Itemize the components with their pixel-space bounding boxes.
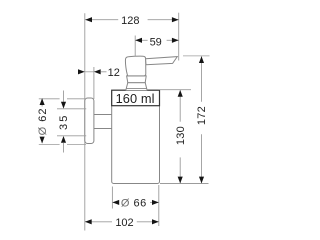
bracket arm top — [94, 114, 112, 116]
dim diameter 62 — [37, 98, 49, 143]
baseline extension bottom — [160, 183, 209, 185]
dim 128 — [85, 15, 179, 27]
dim 59 extension left (pump axis) — [134, 36, 136, 57]
svg-text:12: 12 — [108, 67, 120, 79]
dim 172 extension top — [183, 55, 210, 57]
container body — [112, 90, 160, 183]
svg-text:172: 172 — [196, 106, 208, 125]
dim 130 extension top — [160, 89, 191, 91]
svg-text:130: 130 — [175, 126, 187, 145]
svg-text:160 ml: 160 ml — [116, 91, 155, 106]
svg-text:102: 102 — [115, 217, 133, 229]
dim 35 — [58, 91, 70, 153]
pump head — [125, 56, 145, 76]
svg-text:Ø 62: Ø 62 — [37, 108, 49, 136]
dim diameter 62 extension bottom — [39, 144, 86, 146]
dim 59 — [135, 37, 179, 49]
plate front extension line — [93, 67, 95, 99]
bracket arm bottom — [94, 128, 112, 130]
pump base flange — [126, 83, 147, 91]
wall plate (escutcheon side view) — [85, 98, 94, 144]
dim diameter 66 extension left — [111, 187, 113, 209]
bracket end arc on body — [112, 117, 114, 126]
pump lever / spout — [146, 57, 178, 65]
dim 12 — [78, 67, 120, 79]
dim diameter 62 extension top — [39, 98, 86, 100]
160 ml band box — [112, 90, 160, 106]
dim diameter 66 / 102 extension right — [158, 185, 160, 226]
svg-text:35: 35 — [58, 113, 70, 130]
dim diameter 66 — [112, 198, 158, 210]
dim 35 extension bottom — [57, 135, 86, 137]
dim 128 extension right — [178, 13, 180, 61]
pump base rim line — [126, 88, 147, 90]
svg-text:59: 59 — [150, 37, 162, 49]
svg-text:Ø 66: Ø 66 — [121, 198, 147, 210]
pump collar — [127, 76, 147, 83]
dim 172 — [196, 56, 208, 183]
dim 130 — [175, 90, 187, 183]
dim 35 extension top — [57, 108, 86, 110]
dim 102 — [85, 217, 159, 229]
svg-text:128: 128 — [121, 15, 139, 27]
wall line — [84, 13, 86, 230]
